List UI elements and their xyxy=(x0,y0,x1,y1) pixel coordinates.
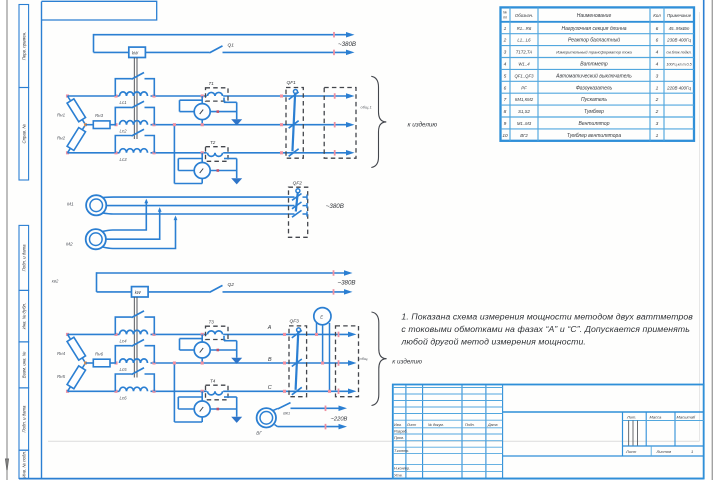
CT dashed box Т3 xyxy=(206,326,229,339)
svg-text:4: 4 xyxy=(504,61,507,67)
svg-text:Лит.: Лит. xyxy=(626,414,636,419)
svg-text:Кол: Кол xyxy=(653,13,661,18)
wattmeter W4 connections xyxy=(201,391,203,401)
svg-text:4: 4 xyxy=(656,50,659,56)
svg-text:Подп.: Подп. xyxy=(465,423,475,427)
svg-text:5: 5 xyxy=(504,73,507,79)
wire phase B (upper) xyxy=(151,124,348,126)
node before QF1 B xyxy=(280,123,283,126)
svg-text:Lс2: Lс2 xyxy=(120,129,128,134)
svg-text:Т1Т2,ТА: Т1Т2,ТА xyxy=(516,50,533,55)
parts table column line 1 xyxy=(509,7,511,140)
inductor Lс6 xyxy=(120,387,148,391)
wire M2 phase 3 xyxy=(102,217,175,248)
svg-text:любой другой метод измерения: любой другой метод измерения мощности. xyxy=(400,337,586,347)
svg-text:220В 400Гц: 220В 400Гц xyxy=(666,85,691,90)
machine M1 inner circle xyxy=(90,199,103,212)
arrow bus2 (upper) xyxy=(346,50,355,56)
svg-text:Lс5: Lс5 xyxy=(120,367,128,372)
node phase A start (lower) xyxy=(66,333,69,336)
wire bus line 2 right (upper) xyxy=(223,51,348,53)
node B coil right (lower) xyxy=(152,361,155,364)
svg-text:ВК1: ВК1 xyxy=(283,412,290,416)
node W junction on A (lower) xyxy=(201,333,204,336)
resistor Rн2 xyxy=(68,125,86,153)
wire PF to phase B xyxy=(322,325,324,363)
wire M1 phase 2 xyxy=(106,205,294,207)
wattmeter W2 connections xyxy=(201,153,203,163)
wire fan bottom xyxy=(275,425,278,427)
breaker QF2 linkage bar xyxy=(296,192,298,212)
svg-text:2: 2 xyxy=(503,38,507,44)
ground below W3 xyxy=(231,358,242,364)
breaker QF1 linkage bar xyxy=(292,93,295,152)
svg-text:Утв.: Утв. xyxy=(394,473,403,477)
node phase B start (upper) xyxy=(114,123,117,126)
svg-text:Rн1: Rн1 xyxy=(57,113,66,118)
breaker QF2 pole 3 xyxy=(292,210,302,217)
node PF-A xyxy=(315,333,318,336)
node A coil right (lower) xyxy=(152,333,155,336)
wire W1 to phase B (upper) xyxy=(201,120,203,125)
svg-text:Масса: Масса xyxy=(650,414,663,419)
parts table column line 4 xyxy=(663,7,665,140)
svg-text:QF1: QF1 xyxy=(287,80,297,86)
wire bus line 2 left (lower) xyxy=(97,291,132,293)
breaker QF3 pole C xyxy=(292,387,302,395)
svg-text:QF1..QF3: QF1..QF3 xyxy=(514,73,534,78)
wire bus left drop (upper) xyxy=(93,34,95,53)
svg-text:Наименование: Наименование xyxy=(577,13,612,19)
svg-text:Пров.: Пров. xyxy=(394,436,404,440)
svg-text:пп: пп xyxy=(503,16,507,20)
breaker dashed box QF1 xyxy=(286,88,303,159)
svg-text:Т3: Т3 xyxy=(209,319,215,324)
breaker QF1 pole A xyxy=(289,92,299,100)
svg-text:2: 2 xyxy=(655,97,659,103)
svg-text:Подп. и дата: Подп. и дата xyxy=(22,244,27,272)
arrow output phase A (upper) xyxy=(346,93,355,99)
resistor Rн4 xyxy=(68,334,86,363)
svg-text:Инв. № подл.: Инв. № подл. xyxy=(22,451,27,478)
title block header rows xyxy=(393,419,503,421)
breaker QF2 pole 1 xyxy=(292,194,302,201)
svg-text:Rн6: Rн6 xyxy=(95,352,104,357)
node W1-B junction (lower) xyxy=(201,361,204,364)
parts table row line 7 xyxy=(501,104,695,106)
svg-text:3: 3 xyxy=(504,50,507,56)
wattmeter W1 meter circle xyxy=(194,104,210,120)
node PF-B xyxy=(321,361,324,364)
node before QF1 A xyxy=(280,94,283,97)
svg-text:Т4: Т4 xyxy=(210,378,216,383)
wire bus line 2 right (lower) xyxy=(223,291,346,293)
svg-text:Взам. инв. №: Взам. инв. № xyxy=(22,351,27,378)
wire bus line 2 mid (upper) xyxy=(145,51,209,53)
svg-text:Листов: Листов xyxy=(656,449,672,454)
wire PF to phase C xyxy=(329,323,331,391)
wire phase A (lower) xyxy=(68,333,120,335)
frame right border xyxy=(703,0,705,479)
svg-text:6: 6 xyxy=(656,26,659,32)
arrow output phase C (lower) xyxy=(348,389,357,395)
svg-text:№ докум.: № докум. xyxy=(428,423,444,427)
svg-text:С: С xyxy=(268,385,272,391)
svg-text:Lс4: Lс4 xyxy=(120,338,128,343)
inductor Lс4 xyxy=(120,330,148,334)
svg-text:общ.1: общ.1 xyxy=(361,104,372,109)
node before QF3 A xyxy=(283,333,286,336)
svg-text:А: А xyxy=(267,325,272,331)
node before QF1 C xyxy=(280,151,283,154)
wire M1 phase 1 xyxy=(103,196,295,199)
node W2-B junction (upper) xyxy=(173,123,176,126)
wire phase C (lower) xyxy=(68,390,120,392)
svg-text:Rн4: Rн4 xyxy=(57,351,66,356)
arrow output phase A (lower) xyxy=(348,332,357,338)
node phase C start (lower) xyxy=(66,390,69,393)
svg-text:Примечание: Примечание xyxy=(667,13,692,18)
svg-text:Реактор балластный: Реактор балластный xyxy=(568,37,620,44)
arrow fan top xyxy=(339,406,348,412)
svg-text:КМ1,КМ2: КМ1,КМ2 xyxy=(515,97,534,102)
title block lit header underline xyxy=(623,420,704,422)
terminal stub QF2 y214.0 xyxy=(303,213,308,215)
node PF-C xyxy=(328,390,331,393)
svg-text:W1..4: W1..4 xyxy=(518,61,530,66)
svg-text:Измерительный трансформатор то: Измерительный трансформатор тока xyxy=(556,50,632,55)
svg-text:10: 10 xyxy=(502,133,508,139)
arrow bus1 (lower) xyxy=(344,270,353,276)
fan meter ВГ outer circle xyxy=(257,408,276,427)
node C coil right (upper) xyxy=(152,151,155,154)
node W2-B junction (lower) xyxy=(173,361,176,364)
svg-text:1: 1 xyxy=(691,449,693,454)
svg-text:Lс6: Lс6 xyxy=(120,395,128,400)
svg-text:1: 1 xyxy=(656,85,659,91)
meter kW box PI (lower) xyxy=(132,287,149,297)
node W2 junction on C (upper) xyxy=(201,151,204,154)
arrow output phase B (upper) xyxy=(346,122,355,128)
arrow M2-3 join xyxy=(174,216,178,221)
ground below W4 xyxy=(231,417,242,423)
svg-text:Масштаб: Масштаб xyxy=(677,414,696,419)
node W2 right junction (upper) xyxy=(217,169,220,172)
wire fan top xyxy=(291,407,341,409)
svg-text:1: 1 xyxy=(504,26,507,32)
wattmeter W3 meter circle xyxy=(194,342,210,358)
page right edge xyxy=(711,0,713,480)
page left edge xyxy=(6,0,8,480)
arrow output phase C (upper) xyxy=(346,150,355,156)
connector dashed box (lower) xyxy=(336,326,359,397)
node star point (lower) xyxy=(84,362,87,365)
title block small grid rows xyxy=(393,387,503,389)
parts table row line 4 xyxy=(501,68,695,70)
CT dashed box Т4 xyxy=(206,385,229,400)
svg-text:Вентилятор: Вентилятор xyxy=(579,121,610,127)
CT primary humps Т3 xyxy=(208,331,223,335)
meter kW box PI (upper) xyxy=(129,47,146,57)
title block designation cell line xyxy=(503,411,704,413)
breaker QF3 pole A xyxy=(292,330,302,338)
svg-text:Лист: Лист xyxy=(406,423,416,427)
svg-text:45..95кВт: 45..95кВт xyxy=(669,26,690,31)
CT primary humps Т1 xyxy=(208,92,223,96)
resistor Rн6 xyxy=(86,362,94,364)
arrow bus1 (upper) xyxy=(346,32,355,38)
brace upper outputs xyxy=(371,76,386,167)
margin box Справ. № xyxy=(19,88,29,181)
inductor Lс3 xyxy=(120,149,148,153)
svg-text:6: 6 xyxy=(504,85,507,91)
node C coil right (lower) xyxy=(152,390,155,393)
breaker dashed box QF2 xyxy=(289,187,308,237)
wire phase C (upper) xyxy=(68,152,120,154)
bypass loop C with switch (lower) xyxy=(115,374,131,391)
parts table column line 2 xyxy=(537,7,539,140)
resistor Rн3 xyxy=(86,124,94,126)
CT dashed box Т1 xyxy=(206,88,229,101)
bypass loop C with switch (upper) xyxy=(115,136,131,153)
svg-text:Разраб.: Разраб. xyxy=(394,430,408,434)
svg-text:2: 2 xyxy=(655,109,659,115)
wire phase A (upper) xyxy=(68,95,120,97)
svg-text:R1...R6: R1...R6 xyxy=(517,26,532,31)
node phase B start (lower) xyxy=(114,361,117,364)
svg-text:Rн2: Rн2 xyxy=(57,135,66,140)
svg-text:Т2: Т2 xyxy=(210,140,216,145)
wire W2 voltage return to phase B (upper) xyxy=(201,179,203,184)
svg-text:Изм.: Изм. xyxy=(394,423,402,427)
svg-text:с токовыми обмотками на фазах: с токовыми обмотками на фазах “А” и “С”.… xyxy=(401,324,690,334)
svg-text:QF3: QF3 xyxy=(290,318,300,324)
svg-text:Пускатель: Пускатель xyxy=(581,97,607,103)
breaker dashed box QF3 xyxy=(289,326,307,397)
wire bus left drop (lower) xyxy=(96,272,98,292)
svg-text:Автоматический выключатель: Автоматический выключатель xyxy=(555,72,632,79)
svg-text:QF2: QF2 xyxy=(293,180,303,186)
svg-text:~380В: ~380В xyxy=(338,280,356,287)
node before QF3 B xyxy=(283,361,286,364)
svg-text:7: 7 xyxy=(504,97,507,103)
arrow output phase B (lower) xyxy=(348,360,357,366)
node W2 right junction (lower) xyxy=(217,408,220,411)
svg-text:РF: РF xyxy=(521,85,527,90)
node A coil left (upper) xyxy=(114,94,117,97)
parts table row line 3 xyxy=(501,57,695,59)
switch Q2 xyxy=(209,285,222,292)
title block lit massa masshtab verticals xyxy=(622,412,624,456)
wire M2 phase 2 xyxy=(106,209,160,239)
svg-text:3: 3 xyxy=(656,121,659,127)
page binder mark xyxy=(6,459,9,470)
node star point (upper) xyxy=(84,123,87,126)
margin box Инв. № подл. xyxy=(19,450,29,478)
wire phase B (lower) xyxy=(151,362,350,364)
svg-text:Лист: Лист xyxy=(625,449,637,454)
svg-text:1: 1 xyxy=(656,133,659,139)
parts table row line 2 xyxy=(501,45,695,47)
svg-text:к изделию: к изделию xyxy=(392,357,422,365)
machine M2 outer circle xyxy=(86,229,106,249)
switch Q1 xyxy=(209,46,222,53)
svg-text:к изделию: к изделию xyxy=(408,121,438,129)
svg-text:общ.: общ. xyxy=(360,356,369,361)
svg-text:Rн3: Rн3 xyxy=(95,113,104,118)
title block list row lines xyxy=(623,445,704,447)
title block outer xyxy=(393,385,704,479)
node W1 right junction (lower) xyxy=(217,349,220,352)
resistor Rн5 xyxy=(68,363,86,391)
arrow bus2 (lower) xyxy=(344,289,353,295)
wire M2 phase 1 xyxy=(102,201,146,232)
parts table row line 6 xyxy=(501,92,695,94)
svg-text:ВГ2: ВГ2 xyxy=(520,133,528,138)
svg-text:М2: М2 xyxy=(66,242,73,248)
svg-text:6: 6 xyxy=(656,38,659,44)
svg-text:см.блок подкл.: см.блок подкл. xyxy=(666,51,691,55)
svg-text:Справ. №: Справ. № xyxy=(22,124,27,144)
wire M1 phase 3 xyxy=(103,213,295,214)
margin box Взам. инв. № xyxy=(19,342,29,388)
node B coil right (upper) xyxy=(152,123,155,126)
svg-text:Ваттметр: Ваттметр xyxy=(580,61,608,67)
svg-text:Тумблер вентилятора: Тумблер вентилятора xyxy=(567,133,621,139)
svg-text:Инв. № дубл.: Инв. № дубл. xyxy=(22,303,27,329)
arrow M2-1 join xyxy=(144,199,148,204)
breaker QF2 pole 2 xyxy=(292,202,302,209)
wire bus line 1 (upper) xyxy=(94,34,348,36)
parts table column line 3 xyxy=(649,7,651,140)
frame bottom border xyxy=(19,478,704,480)
svg-text:ВГ: ВГ xyxy=(256,430,262,435)
terminal stub QF2 y197.1 xyxy=(303,196,308,198)
bypass loop B with switch (lower) xyxy=(115,346,131,363)
connector dashed box (upper) xyxy=(324,88,356,159)
svg-text:М1..М3: М1..М3 xyxy=(517,121,532,126)
wire W2 voltage return to phase B (lower) xyxy=(201,417,203,422)
phase indicator PF circle xyxy=(314,308,331,325)
machine M1 outer circle xyxy=(86,195,106,215)
inductor Lс5 xyxy=(120,359,148,363)
resistor Rн1 xyxy=(68,96,86,125)
svg-text:Q2: Q2 xyxy=(228,282,235,288)
parts table outer border xyxy=(501,7,695,140)
svg-text:9: 9 xyxy=(504,121,507,127)
svg-text:~220В: ~220В xyxy=(331,417,348,423)
svg-text:kW: kW xyxy=(132,51,139,56)
ground below W1 xyxy=(231,119,242,125)
wire bus line 1 (lower) xyxy=(97,272,346,274)
svg-text:Нагрузочная секция длинна: Нагрузочная секция длинна xyxy=(562,26,627,32)
svg-text:Тумблер: Тумблер xyxy=(584,109,604,115)
wattmeter W3 connections xyxy=(201,334,203,342)
breaker QF1 pole C xyxy=(289,149,299,157)
wire bus line 2 mid (lower) xyxy=(148,291,209,293)
svg-text:Перв. примен.: Перв. примен. xyxy=(22,32,27,61)
CT primary humps Т2 xyxy=(208,153,223,157)
wattmeter W4 meter circle xyxy=(194,401,210,417)
node phase A start (upper) xyxy=(66,94,69,97)
node A coil left (lower) xyxy=(114,333,117,336)
svg-text:кв2: кв2 xyxy=(52,279,59,284)
svg-text:~380В: ~380В xyxy=(326,203,344,210)
svg-text:S1,S2: S1,S2 xyxy=(518,109,530,114)
svg-text:В: В xyxy=(268,357,272,363)
inductor Lс1 xyxy=(120,92,148,96)
svg-text:Н.контр.: Н.контр. xyxy=(394,467,410,471)
svg-text:М1: М1 xyxy=(67,201,74,207)
parts table row line 8 xyxy=(501,116,695,118)
mech link from kW box (lower) xyxy=(133,297,135,377)
svg-text:Rн5: Rн5 xyxy=(57,374,66,379)
bypass loop A with switch (lower) xyxy=(115,317,131,334)
node phase C start (upper) xyxy=(66,151,69,154)
mech link from kW box (upper) xyxy=(133,58,135,139)
margin box Подп. и дата xyxy=(19,225,29,290)
svg-text:4: 4 xyxy=(656,61,659,67)
margin box Инв. № дубл. xyxy=(19,290,29,342)
svg-text:Дата: Дата xyxy=(487,423,497,427)
svg-text:№: № xyxy=(503,11,507,15)
breaker QF1 pole B xyxy=(289,121,299,129)
svg-text:Т.контр.: Т.контр. xyxy=(394,449,409,453)
svg-text:100Гц кл.т.0,5: 100Гц кл.т.0,5 xyxy=(666,62,692,66)
svg-text:Lс1: Lс1 xyxy=(120,100,128,105)
bypass loop A with switch (upper) xyxy=(115,79,131,96)
bypass loop B with switch (upper) xyxy=(115,107,131,124)
margin box Перв. примен. xyxy=(19,5,29,88)
node W1 right junction (upper) xyxy=(217,110,220,113)
terminal stub QF2 y205.6 xyxy=(303,205,308,207)
svg-text:1. Показана схема измерения мо: 1. Показана схема измерения мощности мет… xyxy=(401,311,693,321)
node before QF3 C xyxy=(283,390,286,393)
wire W1 to phase B (lower) xyxy=(201,358,203,363)
arrow M2-2 join xyxy=(158,207,162,212)
svg-text:230В 400Гц: 230В 400Гц xyxy=(666,38,691,43)
breaker QF3 linkage bar xyxy=(296,331,299,390)
svg-text:Е: Е xyxy=(320,315,323,320)
node W2 junction on C (lower) xyxy=(201,390,204,393)
parts table row line 9 xyxy=(501,128,695,130)
svg-text:kW: kW xyxy=(135,290,142,295)
title block left verticals xyxy=(405,385,407,479)
svg-text:3: 3 xyxy=(656,73,659,79)
svg-text:Подп. и дата: Подп. и дата xyxy=(22,405,27,433)
frame top-left corner box (rotated designation) xyxy=(42,1,157,20)
parts table header underline xyxy=(501,21,695,23)
wire bus line 2 left (upper) xyxy=(94,51,129,53)
svg-text:Lс3: Lс3 xyxy=(120,157,128,162)
ground below W2 xyxy=(231,178,242,184)
node C coil left (lower) xyxy=(114,390,117,393)
svg-text:Т1: Т1 xyxy=(209,81,215,86)
svg-text:Фазоуказатель: Фазоуказатель xyxy=(576,85,613,91)
switch ВК1 fan xyxy=(273,408,278,410)
arrow fan bottom xyxy=(339,424,348,430)
margin box Подп. и дата xyxy=(19,388,29,450)
frame left border xyxy=(41,2,43,479)
breaker QF3 pole B xyxy=(292,359,302,367)
svg-text:8: 8 xyxy=(504,109,507,115)
svg-text:Обознач.: Обознач. xyxy=(515,13,533,18)
wattmeter W2 meter circle xyxy=(194,163,210,179)
wire PF to phase A xyxy=(316,323,318,334)
node C coil left (upper) xyxy=(114,151,117,154)
CT primary humps Т4 xyxy=(208,391,223,395)
title block lit sub dividers xyxy=(628,421,630,447)
